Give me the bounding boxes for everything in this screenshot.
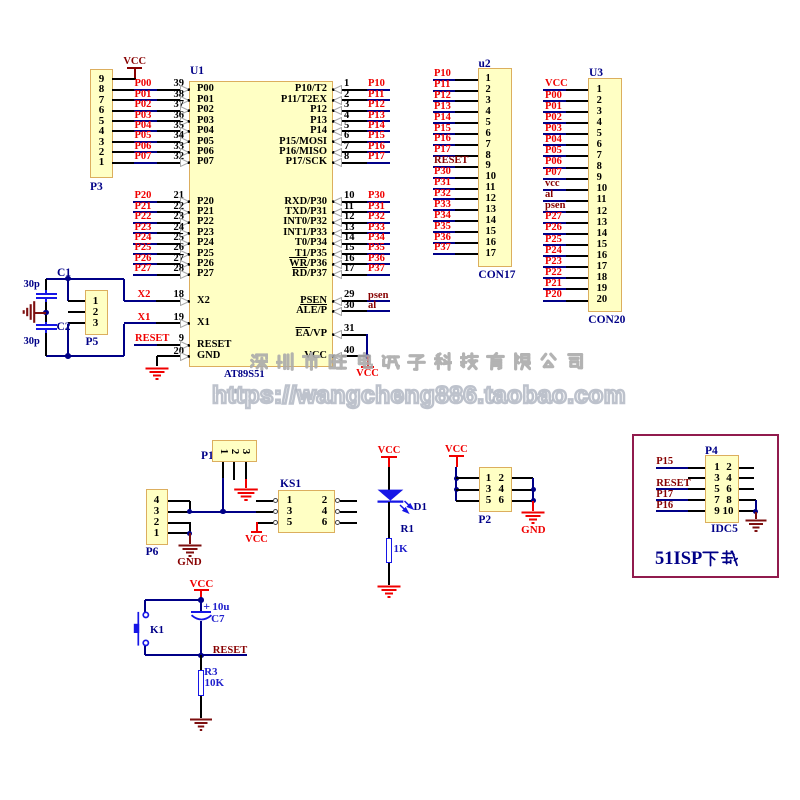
pin number 34 [170,131,184,142]
wire P4 to ground (maroon) [755,512,757,519]
pin U3.20 stub [566,300,588,302]
net label RESET [135,334,169,345]
U1 pin name row P33 [247,228,327,239]
wire P5 pin3 to bottom rail [67,324,69,356]
pin arrow U1.30 [332,307,342,316]
wire top rail to P5 pin1 [67,279,69,301]
wire net P36 (blue) [367,263,390,265]
watermark char 8 [434,352,453,371]
pin U1.18 stub [156,300,189,302]
wire net P04 to U3 (blue) [543,144,566,146]
U1 pin name EA/VP [247,329,327,340]
net label P35 [368,243,385,254]
pin U3.1 stub [566,89,588,91]
wire net RESET to u2 (blue) [433,166,455,168]
pin number 21 [170,191,184,202]
net label P37 (u2 pin 17) [434,243,451,254]
U1 pin name P01 [197,95,214,106]
U1 pin name row P34 [247,238,327,249]
P3 pin number 9 [96,74,107,85]
U3 pin number 8 [597,162,602,173]
wire VCC stem (pin40) [367,356,369,368]
wire net al (blue) [367,310,390,312]
watermark char 11 [513,352,532,371]
pin P4.2 stub [739,467,754,469]
power VCC (reset circuit) bar [194,589,209,591]
P4 pin number 10 [722,506,735,517]
junction bus/P1 pin1 [220,509,226,515]
pin U1.5 stub [333,130,367,132]
pin arrow U1.11 [332,208,342,217]
U1 pin name X1 [197,318,210,329]
wire net P26 to U3 (blue) [543,233,566,235]
pin P4.6 stub [739,488,754,490]
pin number 1 [344,79,349,90]
connector U3 refdes label [589,68,603,80]
wire net P17 to P4 (blue) [656,499,688,501]
wire net P34 to u2 (blue) [433,220,455,222]
pin arrow U1.39 [180,85,190,94]
connector P6 body [146,489,169,545]
pin arrow U1.37 [180,106,190,115]
wire net P02 to U3 (blue) [543,122,566,124]
net label P10 (u2 pin 1) [434,69,451,80]
wire net P32 to u2 (blue) [433,198,455,200]
U3 pin number 19 [597,284,608,295]
pin P2.3 stub [456,489,479,491]
net label P03 [135,111,152,122]
pin u2.1 stub [455,79,478,81]
pin u2.14 stub [455,220,478,222]
net label P26 [135,254,152,265]
wire net P16 to u2 (blue) [433,144,455,146]
wire net P25 to U3 (blue) [543,244,566,246]
net label vcc (U3 pin 10) [545,179,560,190]
capacitor C1 value 30p [24,280,40,291]
net label P00 [135,79,152,90]
KS1 pin 3 circle [273,509,278,514]
wire VCC to LED anode [388,467,390,490]
U1 pin name P22 [197,217,214,228]
pin U1.10 stub [333,201,367,203]
wire net X1 (blue) [124,322,156,324]
wire net P01 (blue) [134,99,157,101]
pin U1.19 stub [156,322,189,324]
pin number 23 [170,212,184,223]
P6 pin number 4 [151,495,162,506]
pin arrow U1.12 [332,218,342,227]
U1 pin name PSEN [247,296,327,307]
net label P14 [368,121,385,132]
P3 pin number 5 [96,116,107,127]
wire net P16 to P4 (blue) [656,510,688,512]
pin number 4 [344,111,349,122]
pin arrow U1.3 [332,106,342,115]
51ISP frame border [632,434,779,578]
net label P32 (u2 pin 12) [434,189,451,200]
U3 pin number 1 [597,85,602,96]
pin number 35 [170,121,184,132]
KS1 pin number 6 [319,517,330,528]
net label P04 [135,121,152,132]
wire P6 pin2 down [189,522,191,533]
power VCC (LED) label [377,446,402,457]
pin number 26 [170,243,184,254]
pin number 13 [344,223,355,234]
pin P4.7 stub [688,499,705,501]
net label P06 [135,142,152,153]
pin number 40 [344,346,355,357]
pin arrow U1.36 [180,117,190,126]
wire net P15 to u2 (blue) [433,133,455,135]
pin U1.29 stub [333,300,367,302]
connector P4 body [705,455,739,523]
u2 pin number 4 [486,107,491,118]
net label P34 [368,233,385,244]
wire net P12 (blue) [367,110,390,112]
capacitor C1 plate top [36,293,57,295]
capacitor C1 bottom lead (blue) [45,298,47,302]
pin arrow U1.13 [332,229,342,238]
pin arrow U1.15 [332,250,342,259]
U1 pin name row P37 [247,269,327,280]
wire net P12 to u2 (blue) [433,100,455,102]
capacitor C1 plate bottom [36,297,57,299]
pin number 9 [170,334,184,345]
wire net P00 (blue) [134,89,157,91]
U1 pin name P24 [197,238,214,249]
P4 pin number 4 [723,473,736,484]
wire bus P6-P1-KS1 (blue) [190,511,256,513]
pin U3.9 stub [566,178,588,180]
net label P11 (u2 pin 2) [434,80,450,91]
U1 pin name P15/MOSI [247,137,327,148]
pin u2.12 stub [455,198,478,200]
net label P36 (u2 pin 16) [434,233,451,244]
pin arrow U1.10 [332,197,342,206]
ground (R3) [188,718,214,734]
P6 pin number 3 [151,506,162,517]
pin U3.3 stub [566,111,588,113]
watermark char 2 [276,352,295,371]
pin number 20 [170,347,184,358]
U1 pin name row P31 [247,207,327,218]
wire net P00 to U3 (blue) [543,100,566,102]
pin KS1.1 stub [256,500,273,502]
pin number 37 [170,100,184,111]
wire P6 pin4 down [189,501,191,512]
pin arrow U1.9 [180,341,190,350]
power VCC (maroon) at P3 label [122,57,147,68]
net label P26 (U3 pin 14) [545,223,562,234]
net label al [368,301,376,312]
u2 pin number 14 [486,216,497,227]
pin number 28 [170,264,184,275]
U3 pin number 10 [597,184,608,195]
P2 pin number 2 [496,473,507,484]
U1 pin name P26 [197,259,214,270]
wire net P11 to u2 (blue) [433,90,455,92]
U1 pin name P03 [197,116,214,127]
wire U1 GND pin [157,355,189,357]
pin P5.1 stub [68,300,85,302]
net label P30 (u2 pin 10) [434,167,451,178]
u2 pin number 12 [486,194,497,205]
pin arrow U1.20 [180,352,190,361]
U3 pin number 13 [597,218,608,229]
U1 pin name GND [197,351,220,362]
pin U3.7 stub [566,155,588,157]
resistor R1 value 1K [394,544,408,555]
wire net P21 (blue) [133,211,157,213]
wire net al to U3 (blue) [543,200,566,202]
pin number 22 [170,202,184,213]
wire P2 left vertical (blue) [455,467,457,501]
watermark char 4 [328,352,347,371]
pin KS1.2 stub [340,500,357,502]
pin U1.2 stub [333,99,367,101]
pin number 25 [170,233,184,244]
wire right X2 drop [123,279,125,301]
pin u2.10 stub [455,177,478,179]
pin arrow U1.5 [332,127,342,136]
pin number 24 [170,223,184,234]
wire net P21 to U3 (blue) [543,288,566,290]
wire crystal bottom rail [46,355,124,357]
U1 pin name row P36 [247,259,327,270]
power VCC label (pin40) [356,369,379,380]
power VCC bar (KS1) [251,531,262,533]
KS1 pin number 2 [319,495,330,506]
wire net P25 (blue) [133,253,157,255]
pin P4.4 stub [739,477,754,479]
net label P01 (U3 pin 3) [545,102,562,113]
pin U3.18 stub [566,277,588,279]
wire P6 to ground (maroon) [189,533,191,544]
pin U1.1 stub [333,89,367,91]
ground label GND (P2) [520,525,546,536]
wire net P30 (blue) [367,201,390,203]
u2 pin number 15 [486,227,497,238]
pin number 17 [344,264,355,275]
P5 pin number 3 [90,318,101,329]
net label P33 [368,223,385,234]
wire K1 bottom lead (blue) [144,646,146,655]
pin U1.4 stub [333,120,367,122]
wire net P27 (blue) [133,274,157,276]
pin P1.2 stub [233,462,235,480]
U3 pin number 6 [597,140,602,151]
U1 pin name row P35 [247,249,327,260]
capacitor C2 value 30p [24,337,40,348]
u2 pin number 8 [486,151,491,162]
wire rail to C1 [45,279,47,290]
pin P6.1 stub [168,532,190,534]
pin arrow U1.33 [180,148,190,157]
pin P4.9 stub [688,510,705,512]
U1 pin name P17/SCK [247,157,327,168]
wire R1 to ground [388,563,390,585]
pin U1.35 stub [157,130,189,132]
connector P1 body [212,440,257,462]
IC U1 part number AT89S51 [224,370,265,381]
P6 pin number 1 [151,528,162,539]
pin KS1.6 stub [340,522,357,524]
wire net P30 to u2 (blue) [433,177,455,179]
pin U3.2 stub [566,100,588,102]
connector P5 refdes label [86,337,99,349]
pin U3.11 stub [566,200,588,202]
ground label GND (P6) [177,557,203,568]
P4 pin number 1 [712,462,723,473]
u2 pin number 16 [486,238,497,249]
pin P2.2 stub [512,477,533,479]
P3 pin number 1 [96,157,107,168]
pin number 6 [344,131,349,142]
net label P13 (u2 pin 4) [434,102,451,113]
U1 pin name P20 [197,197,214,208]
pin KS1.3 stub [256,511,273,513]
net label VCC (U3 pin 1) [545,79,568,90]
wire C2 to bottom rail [45,333,47,356]
wire net P26 (blue) [133,263,157,265]
U1 pin name P23 [197,228,214,239]
crystal socket P5 body [85,290,108,335]
junction bottom rail [65,353,71,359]
U1 pin name P27 [197,269,214,280]
net label P21 (U3 pin 19) [545,279,562,290]
pin U1.24 stub [157,232,189,234]
wire net P17 (blue) [367,162,390,164]
wire net P37 to u2 (blue) [433,253,455,255]
net label P17 (P4) [656,490,673,501]
u2 pin number 13 [486,205,497,216]
wire net P33 (blue) [367,232,390,234]
pin P6.3 stub [168,511,190,513]
wire net P15 to P4 (blue) [656,467,688,469]
wire net P13 to u2 (blue) [433,111,455,113]
pin arrow U1.32 [180,158,190,167]
51ISP caption glyph xia [702,550,719,567]
pin u2.7 stub [455,144,478,146]
pin arrow U1.17 [332,270,342,279]
pin P1.1 stub [222,462,224,478]
pin U3.13 stub [566,222,588,224]
KS1 pin 4 circle [335,509,340,514]
connector P3 refdes label [90,182,103,194]
wire net psen (blue) [367,300,390,302]
pin U1.30 stub [333,310,367,312]
net label P02 [135,100,152,111]
pin P1.3 stub [245,462,247,479]
wire P3 pin7 stub (net P01) [112,99,134,101]
pin arrow U1.34 [180,137,190,146]
pin U1.27 stub [157,263,189,265]
pin U3.19 stub [566,288,588,290]
watermark char 12 [539,352,558,371]
pin U1.12 stub [333,222,367,224]
pin P4.10 stub [739,510,756,512]
junction P2 pin3 [454,487,460,493]
U1 pin name row P32 [247,217,327,228]
pin U3.14 stub [566,233,588,235]
pin U1.38 stub [157,99,189,101]
capacitor C2 plate bottom [36,328,57,330]
wire net P14 to u2 (blue) [433,122,455,124]
pin U1.37 stub [157,110,189,112]
wire net P27 to U3 (blue) [543,222,566,224]
U1 pin name VCC [247,351,327,362]
wire P3 pin4 stub (net P04) [112,130,134,132]
pin P2.4 stub [512,489,533,491]
net label RESET (P4) [656,479,690,490]
wire P2 to ground (red) [532,501,534,511]
net label P27 (U3 pin 13) [545,212,562,223]
pin KS1.5 stub [256,522,273,524]
junction C1/top rail [65,276,71,282]
pin u2.2 stub [455,90,478,92]
P5 pin number 2 [90,307,101,318]
pin U3.4 stub [566,122,588,124]
net label P35 (u2 pin 15) [434,222,451,233]
pin arrow U1.19 [180,319,190,328]
pin arrow U1.35 [180,127,190,136]
pin arrow U1.21 [180,197,190,206]
pin number 7 [344,142,349,153]
wire P4 pin8 to pin10 (blue) [755,500,757,512]
pin U1.31 stub and wire [333,334,368,336]
net label P34 (u2 pin 14) [434,211,451,222]
wire net psen to U3 (blue) [543,211,566,213]
wire net P03 (blue) [134,120,157,122]
capacitor C2 bottom lead (blue) [45,329,47,333]
pin number 31 [344,324,355,335]
net label P14 (u2 pin 5) [434,113,451,124]
pin arrow U1.14 [332,239,342,248]
pin arrow U1.1 [332,85,342,94]
net label P00 (U3 pin 2) [545,91,562,102]
pin number 39 [170,79,184,90]
wire net P06 (blue) [134,151,157,153]
pin P2.6 stub [512,500,533,502]
pin U1.7 stub [333,151,367,153]
switch K1 symbol [131,609,151,647]
pin U1.34 stub [157,141,189,143]
capacitor C7 curved plate [190,614,213,624]
net label P07 [135,152,152,163]
switch block KS1 body [278,490,335,533]
wire P1 pin3 to ground (red) [245,479,247,488]
pin number 33 [170,142,184,153]
net label X1 [138,313,151,324]
pin arrow U1.6 [332,137,342,146]
wire P2 right vertical (blue) [532,478,534,501]
ground (R1) [376,585,402,601]
wire net P22 to U3 (blue) [543,277,566,279]
junction P4 pin8/pin10 [753,509,759,515]
watermark char 6 [381,352,400,371]
ground (U1 pin20) [144,367,170,383]
wire net P23 (blue) [133,232,157,234]
KS1 pin number 1 [284,495,295,506]
pin u2.9 stub [455,166,478,168]
capacitor C7 plus sign [203,600,210,612]
pin u2.13 stub [455,209,478,211]
pin u2.11 stub [455,188,478,190]
LED D1 symbol [375,487,417,515]
wire net P10 to u2 (blue) [433,79,455,81]
pin U1.36 stub [157,120,189,122]
